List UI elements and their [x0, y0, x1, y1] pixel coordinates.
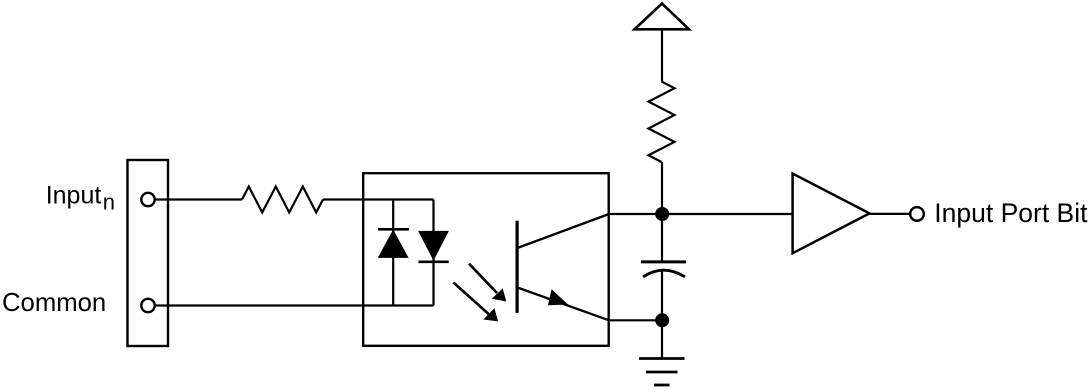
wire LED right branch [432, 200, 434, 306]
buffer U2 [793, 174, 870, 254]
resistor R1 (series input) [242, 187, 323, 213]
light arrow 1 [469, 264, 506, 302]
terminal pin circle Input [141, 193, 154, 206]
wire common (bottom) [148, 304, 434, 306]
optocoupler U1 box [363, 173, 609, 346]
wire LED left branch [392, 200, 394, 306]
terminal block J1 [128, 160, 169, 346]
svg-text:Input Port Bit: Input Port Bit [934, 198, 1088, 228]
wire emitter to node B [609, 319, 663, 321]
output pin circle [910, 207, 924, 221]
wire collector to buffer [609, 213, 793, 215]
terminal pin circle Common [141, 299, 154, 312]
svg-text:Input: Input [46, 182, 102, 210]
node A (collector junction) [655, 207, 669, 221]
diode D2 (LED, cathode down) [419, 231, 449, 261]
wire capacitor to ground [661, 272, 663, 359]
svg-text:Common: Common [2, 289, 106, 317]
phototransistor Q1 base bar [515, 221, 518, 313]
wire resistor to LED anode [323, 198, 434, 200]
svg-text:n: n [103, 189, 115, 214]
label Input_n [46, 182, 115, 215]
capacitor C1 [641, 262, 686, 277]
ground [639, 359, 685, 386]
light arrow 2 [453, 283, 498, 322]
wire input (top) [148, 198, 242, 200]
diode D1 (LED, cathode up) [378, 229, 409, 257]
phototransistor Q1 collector [516, 214, 609, 249]
power symbol (+V) [635, 4, 690, 30]
wire buffer output [870, 213, 911, 215]
wire power to resistor [661, 29, 663, 81]
phototransistor Q1 emitter [516, 287, 609, 320]
node B (emitter junction) [655, 313, 669, 327]
wire resistor to capacitor [661, 162, 663, 262]
resistor R2 (pull-up) [649, 82, 675, 163]
